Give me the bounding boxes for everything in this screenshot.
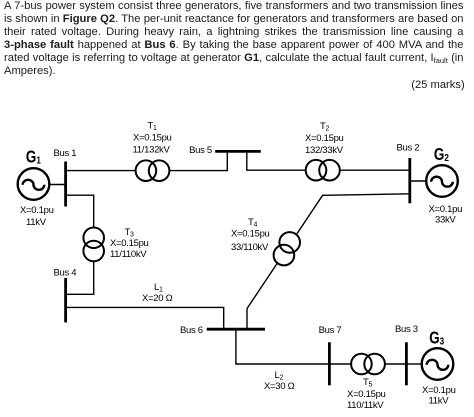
svg-text:X=0.15pu: X=0.15pu bbox=[305, 133, 344, 144]
svg-text:X=0.1pu: X=0.1pu bbox=[429, 204, 463, 215]
svg-text:33/110kV: 33/110kV bbox=[231, 242, 269, 253]
svg-text:X=0.1pu: X=0.1pu bbox=[20, 205, 54, 216]
svg-text:X=20 Ω: X=20 Ω bbox=[142, 293, 173, 304]
svg-text:Bus 3: Bus 3 bbox=[395, 324, 418, 335]
svg-text:X=0.1pu: X=0.1pu bbox=[422, 385, 456, 396]
svg-text:Bus 7: Bus 7 bbox=[319, 325, 342, 336]
line L1 wire Bus 4 to Bus 6 bbox=[66, 307, 224, 329]
transformer T4 bbox=[274, 232, 300, 265]
svg-text:110/11kV: 110/11kV bbox=[347, 400, 384, 411]
svg-text:Bus 2: Bus 2 bbox=[397, 143, 420, 154]
wire Bus 2 to T4 diagonal bbox=[247, 194, 410, 329]
svg-text:X=0.15pu: X=0.15pu bbox=[231, 228, 270, 239]
svg-text:G1: G1 bbox=[26, 148, 41, 167]
wire Bus 5 stub to T2 bbox=[247, 151, 306, 170]
svg-text:Bus 6: Bus 6 bbox=[180, 325, 203, 336]
bus Bus 7 bbox=[328, 342, 331, 385]
svg-text:T2: T2 bbox=[320, 121, 330, 133]
bus Bus 5 bbox=[215, 150, 261, 153]
svg-text:Bus 1: Bus 1 bbox=[54, 148, 77, 159]
svg-text:T1: T1 bbox=[148, 121, 158, 133]
bus Bus 3 bbox=[405, 342, 408, 385]
svg-text:T5: T5 bbox=[363, 377, 373, 389]
svg-text:X=0.15pu: X=0.15pu bbox=[133, 133, 172, 144]
wire Bus 1 to T3 bbox=[66, 195, 94, 227]
bus Bus 1 bbox=[64, 162, 67, 207]
svg-text:132/33kV: 132/33kV bbox=[305, 145, 344, 156]
svg-text:Bus 5: Bus 5 bbox=[189, 145, 212, 156]
wire T1 to Bus 5 stub bbox=[169, 151, 227, 170]
svg-text:T3: T3 bbox=[125, 227, 135, 239]
svg-text:X=0.15pu: X=0.15pu bbox=[347, 389, 386, 400]
bus Bus 2 bbox=[408, 158, 411, 203]
svg-text:L2: L2 bbox=[275, 370, 284, 382]
svg-text:11kV: 11kV bbox=[429, 396, 450, 407]
transformer T2 bbox=[306, 160, 340, 181]
svg-text:11/110kV: 11/110kV bbox=[110, 249, 147, 260]
wire T5 to Bus 3 bbox=[385, 363, 407, 365]
transformer T1 bbox=[136, 160, 170, 181]
svg-text:Bus 4: Bus 4 bbox=[54, 268, 77, 279]
wire Bus 3 to G3 bbox=[406, 363, 422, 365]
svg-text:G3: G3 bbox=[429, 329, 444, 348]
svg-text:X=30 Ω: X=30 Ω bbox=[264, 381, 295, 392]
transformer T3 bbox=[83, 228, 104, 262]
bus Bus 6 bbox=[207, 328, 265, 331]
svg-text:11/132kV: 11/132kV bbox=[133, 145, 171, 156]
transformer T5 bbox=[351, 354, 385, 375]
svg-text:11kV: 11kV bbox=[26, 217, 47, 228]
svg-text:X=0.15pu: X=0.15pu bbox=[110, 238, 149, 249]
svg-text:T4: T4 bbox=[248, 217, 258, 229]
wire T2 to Bus 2 bbox=[340, 169, 410, 171]
generator G1 bbox=[18, 168, 50, 200]
wire Bus 1 to T1 bbox=[66, 170, 136, 172]
line L2 wire Bus 6 to Bus 7 and T5 bbox=[236, 329, 351, 364]
svg-text:33kV: 33kV bbox=[435, 215, 456, 226]
svg-text:G2: G2 bbox=[434, 145, 449, 164]
wire Bus 2 to G2 bbox=[410, 180, 427, 182]
bus Bus 4 bbox=[64, 278, 67, 322]
wire G1 to Bus 1 bbox=[49, 184, 66, 186]
wire T3 to Bus 4 bbox=[66, 261, 94, 294]
generator G2 bbox=[426, 165, 458, 197]
generator G3 bbox=[422, 348, 454, 380]
svg-text:L1: L1 bbox=[154, 282, 163, 294]
